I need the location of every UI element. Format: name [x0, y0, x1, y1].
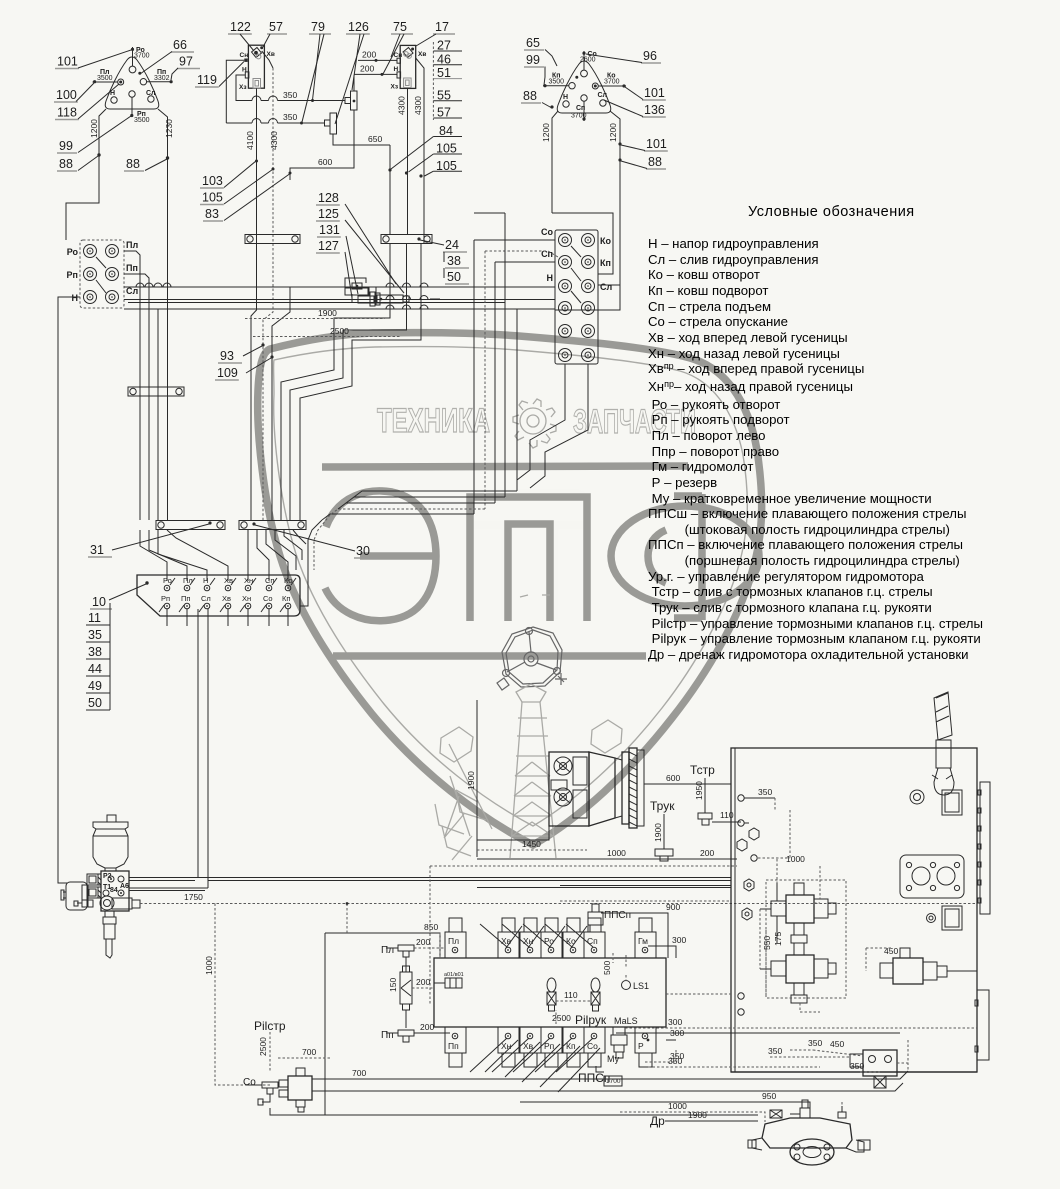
- pilot joystick unit left (left control, ports Ро/Пл/Пп/Рп/Н/Сл): [105, 57, 159, 109]
- watermark gear: [513, 399, 556, 448]
- wire lube down 1000 dotted: [215, 904, 272, 1086]
- tee Трук: [663, 814, 665, 849]
- wire lower right vert: [907, 1040, 909, 1071]
- grease pump block Р2 Т1 84 А6: [101, 871, 129, 911]
- valve sections bottom row: [445, 1027, 466, 1053]
- wire 1000 line: [620, 1112, 765, 1122]
- wire run y866 dotted: [430, 865, 737, 867]
- WATERMARK: [258, 333, 762, 860]
- wire H to lower system: [197, 616, 199, 878]
- tee fitting T2: [330, 113, 337, 134]
- nozzle stack: [105, 911, 114, 917]
- solenoid valve assembly 1: [786, 895, 814, 923]
- cover plate with holes: [900, 855, 964, 898]
- wire Co valve outputs: [312, 1071, 908, 1079]
- wire 200 line upper: [358, 59, 397, 61]
- tee fitting Пп: [398, 1030, 414, 1036]
- wire right block bottom drops: [517, 364, 565, 480]
- section leader slashes top: [506, 926, 522, 948]
- port label Пп 3302 with arrow: [147, 81, 172, 83]
- wire 200 line lower: [354, 73, 397, 75]
- wire right joystick left drop, dim 1200: [552, 111, 558, 213]
- wire left block to bundle Пл: [124, 251, 140, 287]
- wire right descent verticals: [473, 240, 475, 514]
- wire drain double run: [560, 885, 731, 887]
- tee Тстр: [704, 778, 706, 813]
- tee fitting cluster on pilot bus: [352, 283, 362, 289]
- wire 350 lower: [648, 1066, 820, 1068]
- solenoid valve assembly 2: [786, 955, 814, 983]
- wire V1 Сн loop to lower 350 line: [226, 60, 244, 123]
- wire bus H: [124, 286, 555, 288]
- pipe clamp upper-mid: [245, 235, 300, 244]
- wire descent 600: [272, 287, 290, 520]
- wire H run to tank: [198, 877, 731, 879]
- fan motor pump assembly: [762, 1118, 852, 1148]
- wire joystick right lower connects: [555, 285, 620, 310]
- wire 200 Пп: [414, 1032, 445, 1034]
- watermark mast: [508, 684, 560, 858]
- wire bottom bus 1115: [325, 1114, 758, 1116]
- section leader slashes bottom: [470, 1038, 507, 1072]
- brake valve block V1: [248, 45, 264, 88]
- wire 350 line lower: [226, 122, 252, 124]
- wire 300 bottom: [666, 1039, 676, 1041]
- wire V1 drop 4300 dashed: [262, 51, 273, 68]
- wire lube to system a: [129, 877, 198, 879]
- wire descent 4300b: [300, 243, 421, 520]
- wire 300 top: [648, 946, 676, 958]
- wire fan clamp-left to manifold: [140, 530, 167, 581]
- watermark letter П: [470, 493, 587, 619]
- watermark band 1: [322, 466, 688, 467]
- wire right block right stub: [598, 284, 620, 286]
- solenoid coils left: [87, 874, 98, 885]
- wire 200 trk: [673, 858, 737, 860]
- watermark wheat left: [435, 727, 492, 860]
- vert line x325: [324, 933, 326, 1115]
- tank level strip: [980, 782, 990, 914]
- pipe clamp upper-left: [128, 387, 184, 396]
- pump flange disc: [622, 752, 629, 824]
- tank filler cap: [942, 790, 962, 815]
- check valve vertical: [405, 957, 407, 972]
- wire 1750 dotted: [140, 903, 975, 905]
- wire left vert inside tank: [789, 810, 791, 858]
- wire 350 c: [860, 1071, 880, 1073]
- tank clean-out cover: [942, 906, 962, 930]
- vert line x430 dotted: [429, 866, 431, 1005]
- wire left drops to Co valve: [439, 933, 441, 958]
- bottom leaders to sections: [485, 1040, 518, 1072]
- wire 350 bottom: [645, 1048, 676, 1062]
- valve assembly dashed enclosure: [766, 880, 846, 998]
- port label Со 2600: [583, 51, 585, 70]
- bus bumps: [136, 283, 144, 287]
- tank breather: [934, 692, 952, 740]
- pipe clamp right of pair: [381, 235, 432, 244]
- wire 350 a: [770, 1056, 850, 1058]
- wire 350 line upper: [240, 100, 252, 102]
- wire 600 pump to tank: [644, 783, 731, 785]
- wire V1 drop 4100: [256, 88, 258, 287]
- tank lower strip: [977, 990, 989, 1060]
- wire manifold right to valves: [666, 993, 731, 995]
- wire 700 upper: [278, 1057, 330, 1059]
- vert dotted x347: [346, 904, 348, 934]
- wire bus b: [128, 302, 505, 304]
- wire descent V1b dashed: [263, 302, 273, 520]
- Co brake valve block: [288, 1076, 312, 1100]
- left hose coupling block (Ро/Рп/Н rows): [80, 240, 124, 308]
- wire descent 650: [281, 243, 390, 520]
- port label Пл 3500 with arrow: [93, 81, 118, 83]
- accumulator bottle: [107, 815, 116, 822]
- round gauge: [910, 790, 924, 804]
- wire V1 H loop to upper 350 line: [236, 75, 245, 101]
- watermark shield outer: [258, 333, 762, 845]
- watermark wheat right hex: [591, 720, 622, 753]
- dim 110 capsules: [556, 1000, 591, 1002]
- pipe clamp mid-left: [156, 521, 225, 530]
- dim 1450: [477, 849, 587, 851]
- hydraulic tank outline: [731, 748, 977, 1072]
- wire 200 Пл: [414, 947, 445, 949]
- solenoid valve lower (450): [863, 1050, 897, 1076]
- wire 650 line: [333, 134, 390, 145]
- pilot head left: [66, 882, 87, 910]
- wire 950 line: [520, 1102, 810, 1118]
- watermark shield inner: [274, 347, 748, 826]
- wire lube to system b: [129, 887, 208, 889]
- watermark wheel: [497, 627, 567, 690]
- valve interconnect wires: [760, 908, 771, 910]
- port label Ко 3700 with arrow: [598, 85, 626, 87]
- wire 200 mid: [412, 987, 434, 989]
- manifold bottom stubs: [166, 609, 168, 626]
- wire 600 line: [290, 110, 354, 180]
- wire 900: [601, 913, 668, 958]
- relief capsule left: [547, 978, 556, 992]
- wire left block to bundle Пп: [124, 274, 149, 302]
- brake valve block V2: [400, 45, 416, 88]
- tee fitting Пл: [398, 945, 414, 951]
- wire right descent turnings: [322, 514, 474, 520]
- wire bus c: [124, 308, 555, 310]
- wire vert x777: [776, 859, 778, 883]
- tee fitting Co lower: [262, 1094, 270, 1102]
- solenoid a01/b01: [445, 978, 462, 988]
- port label Рп 3500: [131, 97, 133, 117]
- watermark letter Ф: [611, 506, 759, 606]
- wire Др drain line: [668, 1120, 758, 1122]
- wire right block feeds: [474, 239, 555, 241]
- pump bell housing: [589, 752, 615, 826]
- wire ППСп lower stub: [596, 1066, 604, 1072]
- main pilot valve manifold body: [434, 958, 666, 1027]
- wire 350 b: [790, 1049, 813, 1051]
- LS1 sensor: [622, 981, 631, 990]
- wire descent 4300a: [290, 243, 407, 520]
- watermark band 2: [333, 652, 646, 660]
- solenoid valve assembly 3 (450): [893, 958, 923, 984]
- main hydraulic pump assembly: [549, 752, 589, 826]
- pilot joystick unit right (ports Со/Кп/Ко/Сп/Н/Сл): [557, 61, 611, 113]
- wire left joystick left drop, dim 1200: [66, 109, 106, 240]
- banjo outlet: [100, 896, 114, 910]
- pump small fittings: [838, 1112, 846, 1118]
- wire right block top loop: [552, 213, 613, 274]
- bulkhead fittings on tank wall: [738, 795, 744, 801]
- relief capsule right: [591, 978, 600, 992]
- valve spool small on bus: [370, 292, 375, 306]
- valve sections top row: [445, 932, 466, 958]
- tank bottom lines: [731, 1071, 977, 1073]
- wire fan clamp-right to manifold: [247, 530, 249, 581]
- vertical survey line: [476, 700, 478, 857]
- port label Кп 3500 with arrow: [543, 85, 569, 87]
- solenoid ППСп upper: [590, 925, 601, 932]
- wire vert x820: [819, 866, 821, 899]
- callout stack border: [432, 42, 434, 120]
- wire V2 drop 4300 a: [407, 88, 409, 235]
- wire descent V1a: [251, 287, 257, 520]
- wire left joystick right drop, dim 1230: [158, 109, 168, 520]
- wire Sl to lower system: [207, 616, 209, 888]
- wire 300 lower right: [625, 1027, 977, 1029]
- pipe clamp mid-right: [239, 521, 306, 530]
- tee fitting T1: [350, 90, 357, 92]
- wire 850: [325, 933, 440, 958]
- watermark letter Э: [325, 491, 436, 621]
- wire bundle left verticals: [139, 287, 141, 520]
- watermark dashes: [520, 595, 550, 597]
- wire V2 drop 4300 b: [416, 58, 424, 243]
- tee fitting Co: [262, 1082, 278, 1088]
- wire run y859: [477, 858, 737, 860]
- port label Сп 3700: [583, 101, 585, 121]
- wire 650 drop: [389, 145, 391, 235]
- wire run y901: [560, 900, 731, 902]
- right hose coupling block (Со/Сп/Н rows): [555, 230, 598, 364]
- grease fitting small: [82, 900, 93, 907]
- pump mount lines: [477, 826, 549, 840]
- port label Ро 3700: [132, 47, 134, 66]
- quick-coupling manifold plate: [137, 575, 300, 616]
- wire right side to manifold edge: [300, 520, 322, 606]
- wire bottom rail 1: [616, 1032, 900, 1034]
- wire H supply long left drop: [58, 297, 80, 883]
- wire right joystick right drop, dim 1200: [610, 111, 620, 285]
- wire bus a: [124, 299, 555, 301]
